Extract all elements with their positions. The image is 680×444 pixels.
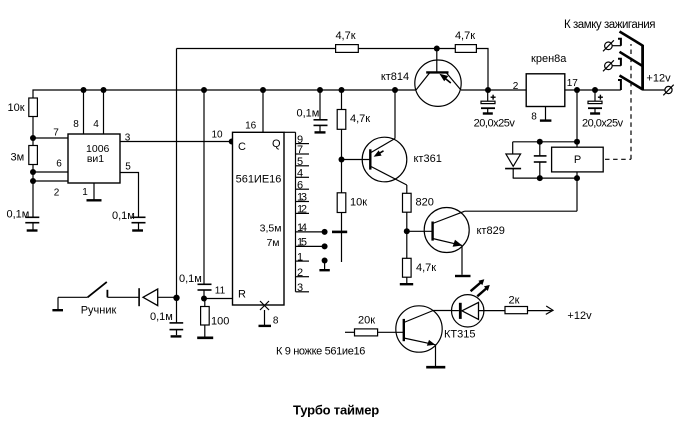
pin 3 separator — [296, 291, 310, 293]
ground (100) — [197, 336, 213, 339]
svg-text:2: 2 — [54, 188, 60, 199]
wire rail segment kt814 to kren8a — [461, 89, 526, 91]
capacitor relay — [539, 142, 541, 156]
LED arrows — [471, 283, 487, 297]
resistor 10k (left) — [29, 98, 38, 117]
node diode out — [173, 295, 179, 301]
wire pin7 — [33, 137, 68, 139]
node rail-pin17 — [574, 87, 580, 93]
wire ignition switch to +12v terminal — [643, 89, 665, 91]
transistor Q4 kt315 — [396, 306, 442, 352]
resistor 4,7k horizontal 1 — [336, 45, 359, 53]
wire relay to kt829 collector — [576, 172, 578, 211]
resistor 3m — [29, 146, 38, 165]
svg-text:0,1м: 0,1м — [150, 311, 173, 323]
wire pin17 to relay P — [576, 90, 578, 147]
pin 9 separator — [296, 143, 310, 145]
ground (select node) — [324, 261, 326, 270]
capacitor 0,1m (rail x=320) — [319, 90, 321, 119]
node rail-base47 — [485, 87, 491, 93]
node rail-cap01 — [317, 87, 323, 93]
IC U2 561IE16 main box — [233, 132, 285, 305]
jumper bar pin14 tap — [332, 231, 347, 234]
svg-text:8: 8 — [531, 112, 537, 123]
wire main +V rail y=90 — [33, 90, 416, 98]
ground (cap 320) — [315, 131, 326, 133]
svg-text:C: C — [238, 141, 246, 153]
node rail-cap2 — [592, 87, 598, 93]
svg-text:20к: 20к — [358, 315, 375, 327]
svg-text:Турбо таймер: Турбо таймер — [293, 402, 379, 417]
IC U2 pin column — [284, 131, 296, 133]
wire rail segment kren8a pin17 to ignition switch — [565, 89, 621, 91]
node rail-pin8 — [81, 87, 87, 93]
svg-text:ви1: ви1 — [87, 153, 104, 165]
svg-text:3м: 3м — [11, 152, 25, 164]
svg-text:0,1м: 0,1м — [7, 209, 30, 221]
svg-text:6: 6 — [56, 159, 62, 170]
svg-text:12: 12 — [297, 204, 307, 216]
svg-text:К замку зажигания: К замку зажигания — [564, 19, 655, 31]
wire pin16 — [262, 90, 264, 132]
pin 12 separator — [296, 212, 310, 214]
svg-text:20,0х25v: 20,0х25v — [582, 117, 624, 129]
wire 10k2 bottom tap — [341, 213, 343, 263]
svg-text:2: 2 — [513, 81, 519, 92]
svg-text:1: 1 — [297, 251, 303, 263]
resistor 4,7k (kt829 base-gnd) — [406, 231, 408, 258]
wire 4,7k2 to rail node — [476, 49, 488, 91]
svg-text:0,1м: 0,1м — [112, 210, 135, 222]
svg-text:6: 6 — [297, 179, 303, 191]
svg-text:крен8а: крен8а — [531, 53, 567, 65]
node pin2 — [30, 178, 36, 184]
svg-text:7: 7 — [297, 144, 303, 156]
node pin6 — [30, 169, 36, 175]
node pin10 C input — [229, 139, 235, 145]
ground (kren8a pin8) — [540, 119, 552, 121]
node cap top — [537, 139, 543, 145]
resistor 20k — [355, 329, 378, 336]
svg-text:кт361: кт361 — [414, 153, 442, 165]
wire relay bottom rail — [513, 177, 577, 179]
svg-text:4,7к: 4,7к — [416, 262, 436, 274]
pin 7 separator — [296, 153, 310, 155]
node kt829 base — [404, 228, 410, 234]
node rail-x204 — [201, 87, 207, 93]
arrow +12v out — [546, 306, 553, 314]
wire 3m bottom to cap — [32, 165, 34, 218]
transistor Q2 kt361 — [362, 137, 407, 182]
svg-text:14: 14 — [297, 222, 307, 234]
ground (cap 176.5) — [171, 335, 182, 337]
pin 5 separator — [296, 165, 310, 167]
svg-text:R: R — [238, 289, 246, 301]
node cap bottom — [537, 175, 543, 181]
ground (left cap) — [27, 229, 38, 231]
resistor 4,7k horizontal 2 — [455, 45, 476, 53]
ignition switch contact 2 — [605, 62, 613, 70]
voltage regulator kren8a — [526, 74, 565, 107]
svg-text:4,7к: 4,7к — [455, 30, 475, 42]
node rail-pin16 — [260, 87, 266, 93]
node relay bottom — [574, 175, 580, 181]
resistor 10k (2nd) — [337, 193, 346, 213]
pin 8 X mark — [260, 301, 269, 310]
svg-text:5: 5 — [297, 156, 303, 168]
ground (4,7k) — [400, 283, 413, 285]
wire relay top rail — [513, 141, 577, 143]
LED — [433, 310, 451, 312]
node kt361 base — [339, 157, 345, 163]
capacitor 0,1m (x=204) — [198, 284, 212, 290]
wire pin8 — [83, 90, 85, 134]
transistor Q1 kt814 — [415, 60, 461, 106]
svg-text:1: 1 — [82, 187, 88, 198]
capacitor 0,1m (pin5) — [132, 217, 146, 222]
IC U1 1006vi1 — [68, 134, 120, 183]
ground (kt829 emitter) — [455, 275, 471, 277]
wire pin3 to C input — [120, 141, 233, 143]
pin 1 separator — [296, 260, 310, 262]
svg-text:Ручник: Ручник — [81, 305, 117, 317]
svg-text:8: 8 — [73, 119, 79, 130]
capacitor 0,1m (x=176.5) — [170, 323, 184, 330]
ground (kt315 emitter) — [426, 366, 445, 369]
svg-text:4,7к: 4,7к — [335, 30, 355, 42]
capacitor 20,0x25v (right) — [594, 90, 596, 101]
node rail-r47 — [339, 87, 345, 93]
switch Ruchnik ground — [52, 309, 63, 311]
wire vertical x=176.5 top to diode node — [176, 49, 178, 323]
svg-text:20,0х25v: 20,0х25v — [474, 117, 516, 129]
svg-text:7: 7 — [53, 128, 59, 139]
pin 13 separator — [296, 201, 310, 203]
node rail-pin4 — [101, 87, 107, 93]
svg-text:4: 4 — [297, 168, 303, 180]
svg-text:16: 16 — [245, 121, 257, 132]
svg-text:5: 5 — [125, 162, 131, 173]
svg-text:10: 10 — [211, 130, 223, 141]
node kt814 base feed — [434, 46, 440, 52]
switch Ruchnik — [58, 296, 88, 298]
resistor 820 — [403, 193, 412, 212]
svg-text:0,1м: 0,1м — [179, 273, 202, 285]
svg-text:4,7к: 4,7к — [350, 113, 370, 125]
svg-text:Q: Q — [272, 138, 281, 150]
ignition switch contact 1 — [605, 42, 613, 50]
relay P box — [552, 147, 604, 172]
wire 10k bottom to 3m top — [32, 117, 34, 146]
svg-text:15: 15 — [297, 237, 307, 249]
svg-text:4: 4 — [93, 119, 99, 130]
capacitor 0,1m (left bottom) — [25, 217, 39, 222]
ignition switch common bar — [641, 45, 644, 90]
wire pin6 — [33, 171, 68, 173]
wire kt829 base — [407, 230, 433, 232]
svg-text:10к: 10к — [350, 197, 367, 209]
svg-text:3: 3 — [297, 282, 303, 294]
svg-text:кт814: кт814 — [381, 71, 409, 83]
pin 15 wire — [296, 245, 325, 247]
pin 14 wire — [296, 231, 325, 233]
svg-text:11: 11 — [215, 286, 226, 297]
svg-text:3: 3 — [125, 133, 131, 144]
dashed link relay to switch — [605, 44, 631, 159]
svg-text:7м: 7м — [266, 237, 279, 249]
svg-text:17: 17 — [567, 78, 579, 89]
wire vertical x=204 from rail — [203, 90, 205, 284]
wire pin5 — [120, 173, 139, 218]
diode flyback — [512, 142, 514, 154]
terminal +12v top — [665, 86, 672, 93]
pin 4 separator — [296, 176, 310, 178]
node pin15 — [322, 243, 328, 249]
wire pin1 to ground — [93, 183, 95, 200]
ignition switch contact 3 — [618, 80, 621, 90]
ground (pin1) — [87, 199, 102, 201]
wire pin4 — [103, 90, 105, 134]
svg-text:100: 100 — [211, 316, 229, 328]
svg-text:8: 8 — [273, 316, 279, 327]
svg-text:2к: 2к — [509, 295, 520, 307]
pin 6 separator — [296, 188, 310, 190]
svg-text:К 9 ножке 561ие16: К 9 ножке 561ие16 — [276, 345, 365, 357]
wire pin11 R input — [204, 298, 233, 300]
transistor Q3 kt829 — [424, 208, 469, 253]
svg-text:кт829: кт829 — [477, 225, 505, 237]
wire pin2 — [33, 180, 68, 182]
svg-text:0,1м: 0,1м — [297, 107, 320, 119]
resistor 2k — [505, 307, 528, 314]
wire top feed y=48.5 — [177, 48, 336, 50]
resistor 100 — [204, 299, 206, 307]
svg-text:+12v: +12v — [646, 73, 671, 85]
svg-text:10к: 10к — [7, 102, 24, 114]
svg-text:561ИЕ16: 561ИЕ16 — [236, 174, 282, 186]
pin 2 separator — [296, 276, 310, 278]
ground (pin5 cap) — [132, 229, 143, 231]
node pin14 — [322, 229, 328, 235]
wire between 4,7k resistors — [358, 48, 455, 50]
svg-text:13: 13 — [297, 192, 307, 204]
node select — [322, 258, 328, 264]
svg-text:КТ315: КТ315 — [444, 329, 475, 341]
node rail-kt361emitter — [392, 87, 398, 93]
ground (pin 8) — [264, 310, 266, 325]
pin numbers column — [297, 134, 307, 294]
svg-text:+12v: +12v — [567, 310, 592, 322]
node relay top — [574, 139, 580, 145]
diode (Ruchnik) — [138, 288, 140, 306]
svg-text:2: 2 — [297, 267, 303, 279]
svg-text:P: P — [574, 154, 581, 166]
svg-text:3,5м: 3,5м — [260, 222, 282, 234]
resistor 4,7k vertical (kt361 base) — [341, 90, 343, 110]
svg-text:820: 820 — [416, 197, 434, 209]
node pin7 — [30, 135, 36, 141]
node pin11 — [201, 296, 207, 302]
capacitor 20,0x25v (left) — [487, 90, 489, 101]
